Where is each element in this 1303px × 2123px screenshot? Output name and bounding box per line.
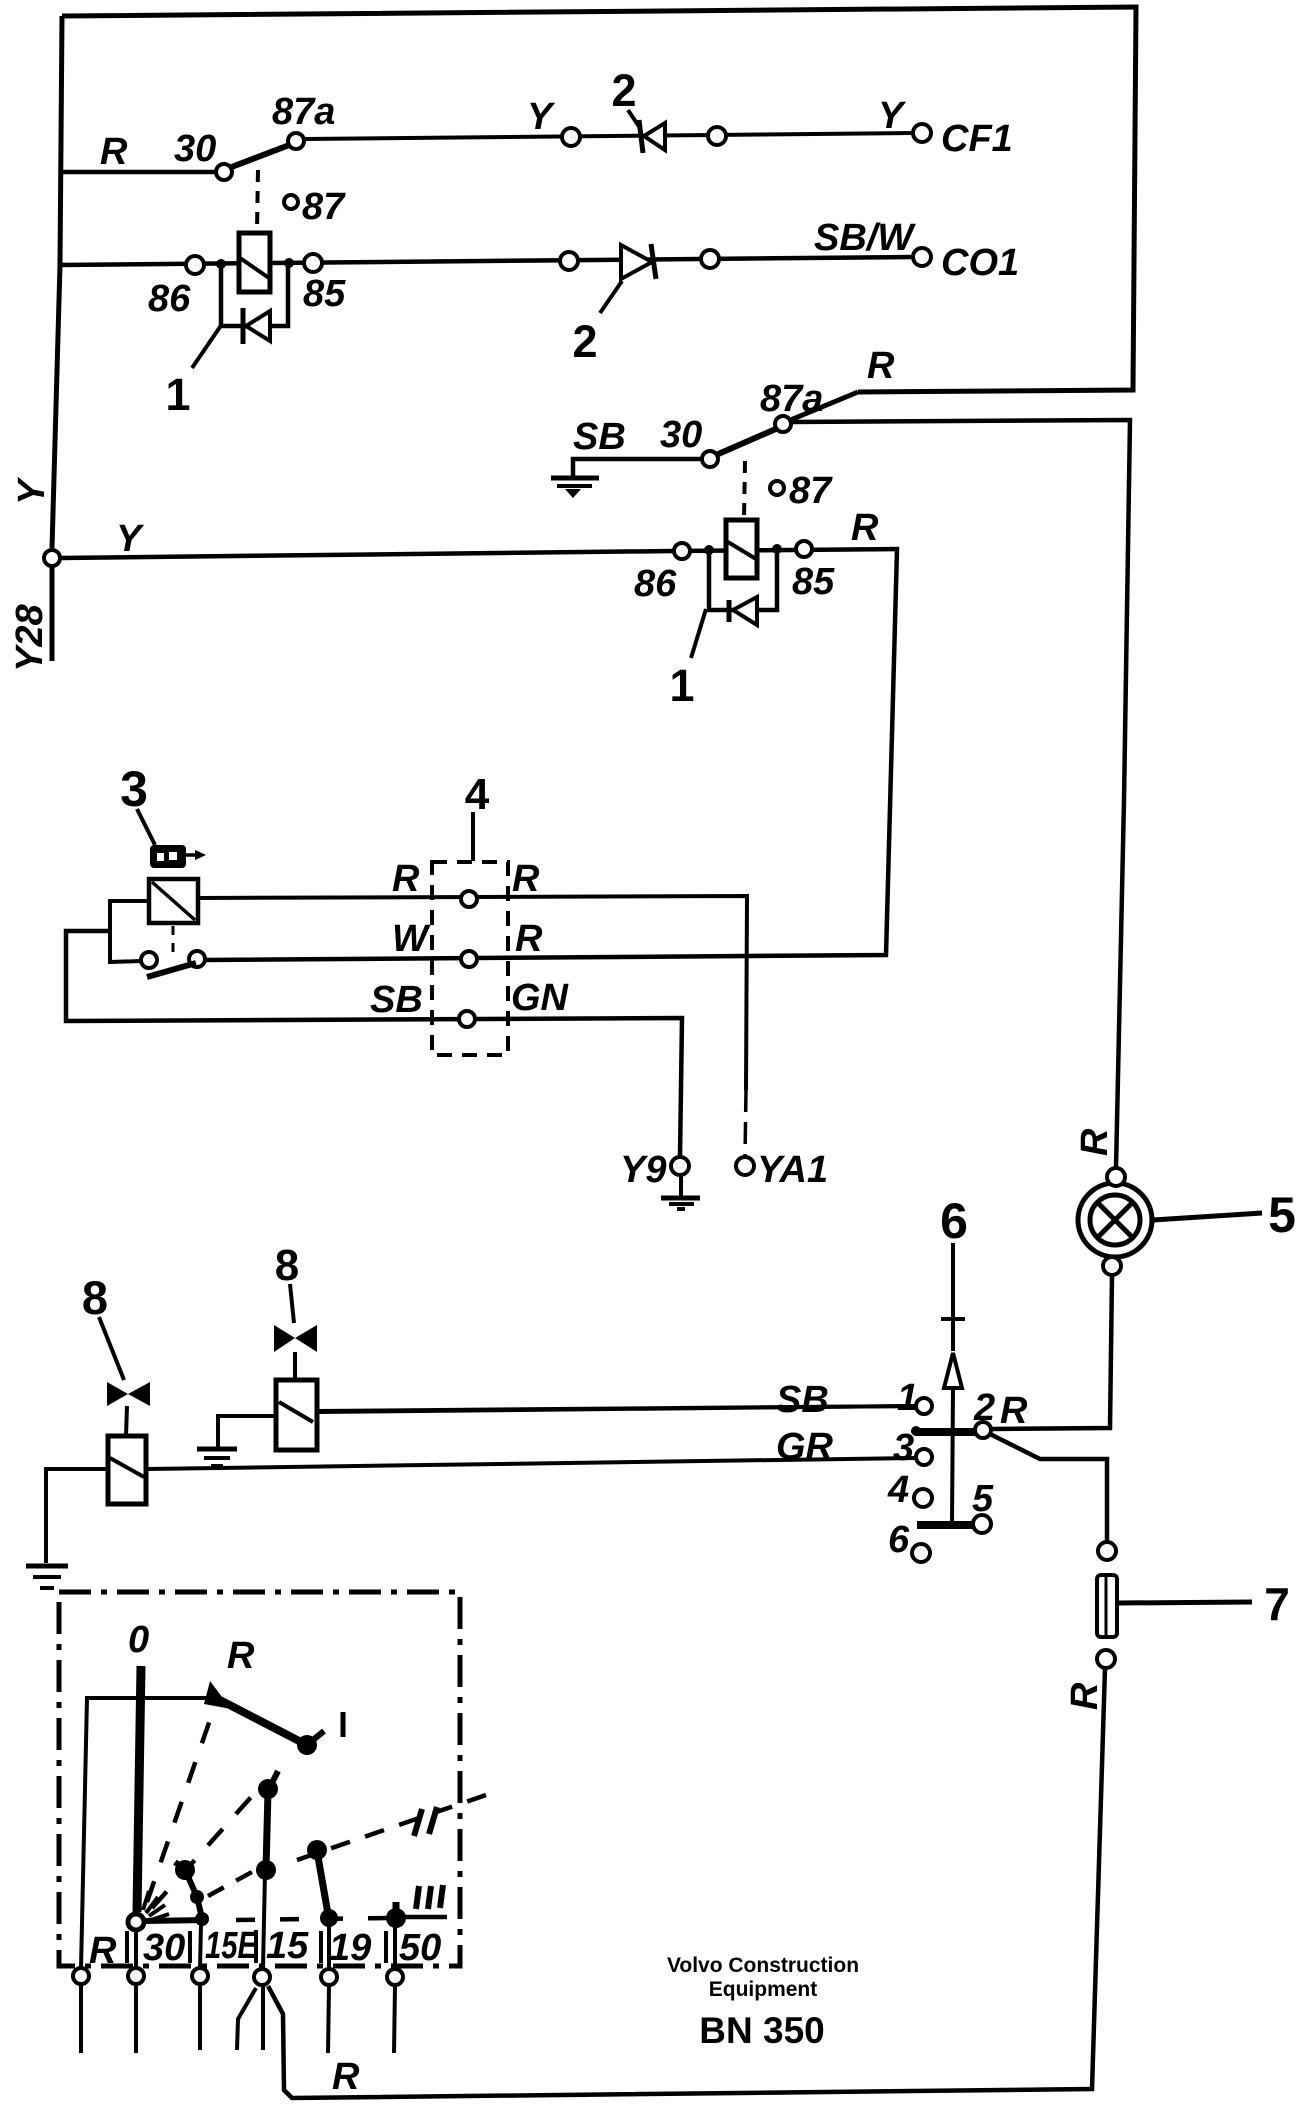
svg-text:1: 1 xyxy=(165,369,190,420)
svg-text:SB: SB xyxy=(776,1379,829,1421)
lamp 5 outer xyxy=(1078,1183,1152,1257)
junction dot xyxy=(216,259,226,269)
dashed wiper position lines xyxy=(147,1714,212,1902)
junction dot xyxy=(284,258,294,268)
switch6 crossbar 5-6 xyxy=(917,1521,975,1529)
svg-text:GN: GN xyxy=(511,977,570,1019)
svg-text:30: 30 xyxy=(660,414,702,456)
fuse 7 body xyxy=(1097,1575,1117,1637)
svg-text:0: 0 xyxy=(128,1619,149,1661)
diode 2 on Y line triangle xyxy=(644,123,665,150)
relay2 coil K2 xyxy=(726,520,757,578)
switch6 contact 1 xyxy=(916,1398,932,1414)
connector pin row1 xyxy=(461,891,477,907)
svg-text:85: 85 xyxy=(792,561,835,603)
switch6 contact 3 xyxy=(916,1449,932,1465)
fuse top terminal xyxy=(1098,1542,1116,1560)
svg-text:7: 7 xyxy=(1264,1578,1290,1630)
wire SB branch down to Y9 xyxy=(66,931,682,1157)
wire fuse down around bottom to ignition switch xyxy=(268,1668,1105,2098)
svg-text:3: 3 xyxy=(120,761,148,817)
svg-text:4: 4 xyxy=(887,1469,909,1511)
bar 30 xyxy=(144,1920,208,1921)
relay2 contact 87 xyxy=(770,481,784,495)
svg-text:87a: 87a xyxy=(272,91,335,133)
contact arrowhead R position xyxy=(204,1681,231,1709)
svg-text:Y: Y xyxy=(11,476,53,505)
svg-text:1: 1 xyxy=(669,660,694,711)
svg-text:87: 87 xyxy=(302,186,346,228)
svg-text:R: R xyxy=(851,507,879,549)
svg-text:GR: GR xyxy=(776,1426,834,1468)
connector 4 dashed box xyxy=(432,862,508,1055)
50 contact xyxy=(393,1902,400,1916)
wire relay2 row 86-85 and R down to connector row2 xyxy=(205,549,897,960)
junction circle xyxy=(701,250,719,268)
switch6 contact 2 xyxy=(975,1422,991,1438)
wiper 0 xyxy=(137,1666,141,1912)
pointer 2 xyxy=(600,281,622,313)
wire R feed inside box xyxy=(81,1698,209,1968)
terminal CF1 xyxy=(913,124,931,142)
ground relay2 xyxy=(551,476,599,481)
relay1 switch arm 30-87a xyxy=(229,144,292,168)
terminal circles xyxy=(73,1968,89,1984)
wire arm from contact2 to fuse xyxy=(990,1434,1107,1542)
fuse bottom terminal xyxy=(1097,1650,1115,1668)
pointer 8 left xyxy=(99,1317,124,1380)
svg-text:R: R xyxy=(512,858,540,900)
svg-text:Volvo Construction: Volvo Construction xyxy=(667,1954,859,1977)
svg-text:BN 350: BN 350 xyxy=(699,2010,824,2051)
ground 8a xyxy=(26,1564,68,1569)
wire R row from comp3 to YA1 xyxy=(198,896,747,1090)
switch6 contact 5 xyxy=(973,1515,991,1533)
valve 8b bowtie xyxy=(274,1325,295,1352)
common contact xyxy=(128,1914,144,1930)
svg-text:CO1: CO1 xyxy=(941,242,1019,284)
wire R to relay1 contact 30 xyxy=(61,170,216,175)
wire comp3 left loop xyxy=(110,901,149,962)
15E contact chain xyxy=(175,1862,185,1870)
lamp 5 inner with cross xyxy=(1090,1195,1140,1245)
svg-text:50: 50 xyxy=(399,1927,441,1969)
svg-text:R: R xyxy=(392,858,420,900)
svg-text:86: 86 xyxy=(634,563,677,605)
diode 2 on SB/W line cathode bar xyxy=(651,244,656,279)
contact I dot xyxy=(297,1735,317,1755)
svg-text:SB/W: SB/W xyxy=(814,217,916,259)
svg-text:YA1: YA1 xyxy=(757,1149,828,1191)
svg-text:R: R xyxy=(867,345,895,387)
comp3 contact left xyxy=(141,952,157,968)
relay2 contact 30 xyxy=(702,451,718,467)
pointer 4 xyxy=(471,812,475,861)
relay1 contact 85 xyxy=(304,254,322,272)
pointer 3 xyxy=(137,809,155,845)
solenoid 8a xyxy=(108,1436,146,1504)
svg-text:8: 8 xyxy=(82,1271,108,1324)
wire SB to contact 1 xyxy=(318,1406,916,1412)
valve 8a bowtie xyxy=(107,1382,128,1406)
svg-text:3: 3 xyxy=(893,1427,914,1469)
svg-text:Equipment: Equipment xyxy=(709,1978,818,2001)
relay1 coil K1 xyxy=(239,233,270,292)
icon lighter xyxy=(152,847,184,866)
wiper arm to I xyxy=(220,1700,305,1744)
terminal stubs xyxy=(79,1985,83,2053)
pointer 5 xyxy=(1153,1213,1262,1220)
junction dot xyxy=(704,545,714,555)
svg-text:15: 15 xyxy=(266,1925,309,1967)
pointer 1 xyxy=(192,324,222,368)
svg-text:6: 6 xyxy=(940,1193,968,1249)
pointer 1 xyxy=(691,609,706,658)
wire top box top/right/bottom edges xyxy=(62,7,1136,392)
wire stub below Y28 xyxy=(50,566,55,661)
svg-text:Y: Y xyxy=(527,96,556,138)
relay2 contact 85 xyxy=(796,541,812,557)
svg-text:W: W xyxy=(392,918,431,960)
relay1 suppression diode loop xyxy=(221,263,288,326)
wire 8a to ground xyxy=(46,1469,108,1563)
wire Y from 87a to CF1 xyxy=(304,133,913,139)
terminal YA1 xyxy=(736,1157,754,1175)
svg-text:R: R xyxy=(89,1930,117,1972)
separator ticks xyxy=(125,1931,129,1963)
relay1 contact 87 xyxy=(284,195,298,209)
relay2 contact 86 xyxy=(674,543,690,559)
wire slant from box bottom to relay2 87a xyxy=(788,392,858,421)
comp3 coil xyxy=(149,879,198,923)
svg-text:85: 85 xyxy=(303,273,346,315)
junction circle xyxy=(708,127,726,145)
svg-text:Y: Y xyxy=(878,95,907,137)
svg-text:5: 5 xyxy=(972,1478,994,1520)
solenoid 8b xyxy=(276,1380,317,1450)
wire R from 87a down right side to lamp xyxy=(791,420,1130,1168)
comp3 contact right xyxy=(189,951,205,967)
ignition switch box dash-dot xyxy=(59,1592,460,1966)
terminal CO1 xyxy=(913,248,931,266)
label I xyxy=(341,1712,346,1737)
junction circle xyxy=(562,128,580,146)
svg-text:R: R xyxy=(332,2056,360,2098)
svg-text:R: R xyxy=(1000,1390,1028,1432)
relay1 contact 30 xyxy=(216,164,232,180)
relay1 contact 86 xyxy=(186,256,204,274)
19 contact xyxy=(307,1840,327,1860)
svg-text:Y28: Y28 xyxy=(9,604,51,672)
svg-text:R: R xyxy=(100,131,128,173)
wire SB from 8b xyxy=(317,1406,916,1411)
diode 2 on Y line cathode bar xyxy=(639,120,643,153)
relay2 switch arm xyxy=(716,428,778,455)
relay2 suppression diode loop xyxy=(709,549,777,610)
diode 2 on SB/W line triangle xyxy=(621,245,652,279)
15 contact chain xyxy=(270,1771,278,1787)
label III xyxy=(416,1886,419,1909)
pointer 8 right xyxy=(290,1284,294,1323)
wire SB/W row 86-85 to CO1 xyxy=(59,257,913,265)
svg-text:30: 30 xyxy=(143,1927,185,1969)
pointer 7 xyxy=(1118,1602,1252,1603)
wire 15E to terminal xyxy=(200,1925,201,1968)
wire GR to contact 3 xyxy=(146,1458,916,1469)
svg-text:30: 30 xyxy=(174,128,216,170)
wire 8b to ground xyxy=(218,1416,276,1448)
lamp top terminal xyxy=(1107,1168,1125,1186)
svg-text:Y: Y xyxy=(116,518,145,560)
valve 8b link xyxy=(293,1352,297,1380)
connector pin row3 xyxy=(459,1011,475,1027)
svg-text:8: 8 xyxy=(275,1241,299,1290)
dashed link comp3 xyxy=(172,926,175,953)
connector pin row2 xyxy=(461,951,477,967)
wire SB to relay2 contact 30 xyxy=(573,459,702,477)
relay1 contact 87a xyxy=(288,133,304,149)
dashed link relay2 arm to coil xyxy=(744,461,745,518)
dashed contact row bar xyxy=(236,1918,390,1920)
switch6 crossbar 2-3 xyxy=(915,1428,977,1436)
svg-text:5: 5 xyxy=(1268,1187,1296,1243)
svg-text:87a: 87a xyxy=(760,378,823,420)
svg-text:CF1: CF1 xyxy=(941,118,1013,160)
relay2 contact 87a xyxy=(775,416,791,432)
ground 8b xyxy=(197,1447,237,1452)
wire common to terminal 30 xyxy=(134,1930,138,1968)
svg-text:2: 2 xyxy=(973,1387,995,1429)
svg-text:86: 86 xyxy=(148,278,191,320)
valve 8a link xyxy=(126,1406,127,1436)
svg-text:2: 2 xyxy=(611,65,636,116)
svg-text:19: 19 xyxy=(329,1927,371,1969)
svg-text:R: R xyxy=(515,918,543,960)
svg-text:SB: SB xyxy=(370,979,423,1021)
svg-text:15E: 15E xyxy=(205,1925,258,1967)
svg-text:6: 6 xyxy=(888,1519,910,1561)
svg-text:1: 1 xyxy=(897,1377,918,1419)
svg-text:R: R xyxy=(227,1635,255,1677)
junction circle CO1 row xyxy=(560,252,578,270)
wire Y to relay2 86 xyxy=(60,551,674,558)
svg-text:4: 4 xyxy=(465,770,490,819)
svg-text:87: 87 xyxy=(789,470,833,512)
label II xyxy=(414,1809,422,1836)
junction dot xyxy=(772,544,782,554)
wire lamp down to switch contact 2 xyxy=(991,1275,1112,1429)
terminal Y9 xyxy=(671,1157,689,1175)
svg-text:SB: SB xyxy=(573,416,626,458)
whisker rays xyxy=(143,1891,149,1910)
svg-text:R: R xyxy=(1064,1682,1106,1710)
node Y28 xyxy=(44,550,60,566)
pointer 2 xyxy=(628,110,640,128)
dashed link relay1 arm to coil xyxy=(257,170,258,230)
ground Y9 xyxy=(679,1176,683,1196)
svg-text:R: R xyxy=(1074,1128,1116,1156)
wire left vertical Y (box left edge down to node Y28) xyxy=(52,16,62,548)
lamp bottom terminal xyxy=(1103,1257,1121,1275)
svg-text:Y9: Y9 xyxy=(620,1149,666,1191)
switch6 contact 6 xyxy=(912,1544,930,1562)
switch6 contact 4 xyxy=(914,1489,932,1507)
comp3 contact arm xyxy=(147,963,196,977)
switch6 actuator xyxy=(951,1243,955,1351)
svg-text:2: 2 xyxy=(572,316,597,367)
